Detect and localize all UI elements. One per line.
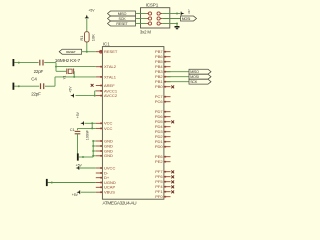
- wire SCK net: [167, 81, 189, 83]
- wire C1 top lead: [77, 128, 79, 130]
- svg-text:SCK: SCK: [119, 17, 127, 21]
- pin PF0 (right): [155, 194, 170, 199]
- svg-text:+5V: +5V: [76, 163, 83, 167]
- wire XTAL2 net: [56, 66, 96, 68]
- node junction (18.8,86.2): [18, 85, 20, 87]
- wire vertical x=44.5 cap2 to XTAL1: [54, 77, 56, 86]
- net flag MISO (ICSP side): [108, 11, 136, 16]
- wire MOSI net: [167, 76, 189, 78]
- wire MISO net: [167, 71, 189, 73]
- wire GND bus horizontal: [79, 156, 94, 158]
- svg-text:MOSI: MOSI: [190, 75, 199, 79]
- node junction (82.8,155.8): [82, 156, 84, 158]
- supply +5V (VBUS): [72, 190, 80, 197]
- svg-text:MISO: MISO: [118, 12, 127, 16]
- wire ICSP pin6 to GND: [162, 23, 177, 25]
- pin PC7 (right): [155, 94, 171, 99]
- value 16MHz KX-7: [55, 58, 81, 64]
- connector pin 6 (ICSP right): [157, 22, 162, 25]
- net flag SCK (IC side): [189, 79, 211, 84]
- supply +5V (ICSP): [177, 9, 191, 15]
- pin PD1 (right): [155, 139, 171, 144]
- net flag RESET (at IC): [59, 49, 81, 54]
- pin PD4 (right): [155, 124, 171, 129]
- net flag MOSI (IC side): [189, 74, 211, 79]
- svg-text:MISO: MISO: [190, 70, 199, 74]
- pin AVCC1 (left): [96, 88, 118, 93]
- no-connect X on AREF: [91, 84, 94, 87]
- wire AVCC1 jog: [95, 91, 96, 96]
- pin GND (left): [96, 138, 113, 143]
- svg-text:3x2 M: 3x2 M: [140, 29, 152, 34]
- node junction (177,23.5): [176, 23, 178, 25]
- node junction (56,66.7): [55, 66, 57, 68]
- node junction (92.2,128.4): [91, 127, 93, 129]
- IC U1 (IC1 ATMEGA32U4-AU) box: [102, 47, 163, 200]
- pin PF1 (right): [155, 189, 174, 194]
- pin PB5 (right): [155, 59, 170, 64]
- wire MISO to ICSP: [136, 13, 147, 15]
- wire RESET to ICSP: [136, 23, 147, 25]
- wire VBUS net: [81, 191, 96, 193]
- svg-text:R1: R1: [79, 35, 84, 41]
- pin PB2 (right): [155, 74, 170, 79]
- pin PF6 (right): [155, 174, 174, 179]
- svg-text:Y1: Y1: [63, 75, 67, 79]
- pin PB0 (right): [155, 84, 174, 89]
- net flag SCK (ICSP side): [108, 16, 136, 21]
- label ICSP1: [146, 3, 159, 8]
- value 22pF (top): [34, 69, 44, 74]
- node junction (87.3,51.7): [86, 51, 88, 53]
- svg-text:+5V: +5V: [88, 8, 95, 12]
- svg-text:C1: C1: [70, 127, 76, 132]
- pin PD2 (right): [155, 134, 171, 139]
- svg-text:VCC: VCC: [104, 126, 113, 131]
- svg-text:16MHz KX-7: 16MHz KX-7: [55, 58, 81, 64]
- connector ICSP1 box: [141, 8, 170, 28]
- svg-text:ATMEGA32U4-AU: ATMEGA32U4-AU: [103, 200, 137, 205]
- svg-text:PE2: PE2: [155, 159, 163, 164]
- pin XTAL1 (left): [96, 74, 117, 79]
- supply +5V (above R1): [85, 8, 95, 18]
- label C1: [70, 127, 76, 132]
- supply +5V (VCC): [76, 111, 84, 125]
- label IC1: [103, 41, 110, 46]
- svg-text:RESET: RESET: [104, 49, 118, 54]
- wire RESET net: [82, 51, 96, 53]
- wire VCC1 net: [85, 122, 96, 124]
- net flag MISO (IC side): [189, 69, 211, 74]
- value 3x2 M: [140, 29, 152, 34]
- svg-text:AREF: AREF: [104, 83, 115, 88]
- pin GND (left): [96, 143, 113, 148]
- pin GND (left): [96, 153, 113, 158]
- wire XTAL1 net: [55, 76, 96, 78]
- svg-text:10K: 10K: [91, 34, 96, 41]
- pin PE6 (right): [155, 154, 170, 159]
- pin PB4 (right): [155, 64, 170, 69]
- pin RESET (left): [96, 49, 118, 54]
- pin PB7 (right): [155, 49, 170, 54]
- ground (top cap): [12, 59, 14, 66]
- wire vertical x=56 cap1 to crystal: [55, 63, 57, 72]
- pin AVCC2 (left): [96, 93, 118, 98]
- node junction (51.8,182.2): [51, 182, 53, 184]
- svg-text:+5V: +5V: [72, 193, 79, 197]
- wire R1 top lead: [86, 19, 88, 32]
- pin PB6 (right): [155, 54, 170, 59]
- node junction (177,13.5): [176, 13, 178, 15]
- svg-text:MOSI: MOSI: [182, 17, 191, 21]
- pin PF4 (right): [155, 184, 174, 189]
- value label ATMEGA32U4-AU: [103, 200, 137, 205]
- ground (bottom cap): [12, 83, 14, 90]
- pin AREF (left): [96, 83, 115, 88]
- svg-text:SCK: SCK: [190, 80, 198, 84]
- pin PC6 (right): [155, 99, 171, 104]
- pin UCAP (left): [96, 185, 116, 190]
- connector pin 3 (ICSP left): [146, 17, 151, 20]
- wire ICSP pin4 to MOSI: [162, 18, 180, 20]
- pin GND (left): [96, 148, 113, 153]
- svg-text:RESET: RESET: [116, 22, 128, 26]
- pin PF7 (right): [155, 169, 174, 174]
- connector pin 1 (ICSP left): [146, 12, 151, 15]
- net flag RESET (ICSP side): [108, 21, 136, 26]
- pin PB1 (right): [155, 79, 170, 84]
- svg-text:C4: C4: [31, 77, 37, 82]
- wire top 22pF chain (y=62): [14, 62, 56, 64]
- pin VCC (left): [96, 126, 113, 131]
- node junction (18.8,62.6): [18, 62, 20, 64]
- svg-text:22pF: 22pF: [34, 69, 44, 74]
- svg-text:XTAL2: XTAL2: [104, 64, 117, 69]
- connector pin 2 (ICSP right): [157, 12, 162, 15]
- wire GND pin stubs tie: [93, 141, 96, 156]
- svg-text:ICSP1: ICSP1: [146, 3, 159, 8]
- wire down to ground: [176, 24, 178, 27]
- pin D- (left): [96, 170, 109, 175]
- svg-text:+5V: +5V: [187, 9, 191, 14]
- node junction (94.7,95.6): [94, 95, 96, 97]
- supply +5V (UVCC): [76, 163, 96, 170]
- connector pin 5 (ICSP left): [146, 22, 151, 25]
- svg-text:XTAL1: XTAL1: [104, 74, 117, 79]
- wire SCK to ICSP: [136, 18, 147, 20]
- pin VCC (left): [96, 121, 113, 126]
- ground (UGND): [46, 179, 48, 186]
- svg-text:AVCC2: AVCC2: [104, 93, 118, 98]
- svg-text:IC1: IC1: [103, 41, 110, 46]
- svg-text:PD0: PD0: [155, 144, 164, 149]
- node junction GND bus taps: [92, 140, 94, 157]
- svg-text:100nF: 100nF: [86, 129, 90, 140]
- wire VCC vertical tie: [91, 123, 93, 128]
- pin XTAL2 (left): [96, 64, 117, 69]
- pin PD0 (right): [155, 144, 171, 149]
- pin PD6 (right): [155, 114, 171, 119]
- wire AVCC2 net: [76, 95, 96, 97]
- pin UGND (left): [96, 180, 116, 185]
- svg-text:PF0: PF0: [155, 194, 163, 199]
- resistor R1: [85, 32, 90, 42]
- pin PB3 (right): [155, 69, 170, 74]
- supply +5V (AVCC): [68, 86, 73, 98]
- svg-text:GND: GND: [104, 153, 113, 158]
- wire ICSP pin2 to +5V: [162, 13, 177, 15]
- pin PE2 (right): [155, 159, 170, 164]
- wire R1 bottom lead: [86, 42, 88, 52]
- svg-text:22pF: 22pF: [31, 91, 41, 96]
- wire GND bus vertical: [92, 141, 94, 157]
- value 22pF (bottom): [31, 91, 41, 96]
- value 100nF (rotated): [86, 129, 90, 140]
- capacitor C3 22pF (top): [40, 60, 43, 66]
- connector pin 4 (ICSP right): [157, 17, 162, 20]
- wire bottom 22pF chain (y=85): [14, 85, 55, 87]
- value 10K (rotated): [91, 34, 96, 41]
- svg-text:+5V: +5V: [68, 86, 72, 93]
- node junction (92.2,123.3): [91, 122, 93, 124]
- pin PF5 (right): [155, 179, 174, 184]
- pin VBUS (left): [96, 190, 115, 195]
- ground (ICSP): [175, 27, 180, 29]
- label R1 (rotated): [79, 35, 84, 41]
- ground (VCC cluster): [77, 153, 79, 160]
- wire UGND net: [48, 182, 96, 184]
- net flag MOSI (ICSP side): [181, 16, 197, 21]
- label C4: [31, 77, 37, 82]
- svg-text:PC6: PC6: [155, 99, 164, 104]
- svg-text:RESET: RESET: [66, 50, 76, 54]
- label Y1 (rotated): [63, 75, 67, 79]
- svg-text:+5V: +5V: [76, 111, 80, 118]
- wire VCC2 net: [78, 127, 96, 129]
- wire crystal right to XTAL1: [73, 71, 75, 77]
- capacitor C1 100nF: [75, 131, 81, 133]
- pin PD7 (right): [155, 109, 171, 114]
- node junction (74.2,76.9): [73, 76, 75, 78]
- svg-text:VBUS: VBUS: [104, 190, 115, 195]
- crystal Q1 16MHz: [56, 69, 74, 75]
- capacitor C4 22pF (bottom): [41, 83, 44, 89]
- pin D+ (left): [96, 175, 110, 180]
- pin PD3 (right): [155, 129, 171, 134]
- pin UVCC (left): [96, 165, 116, 170]
- pin PD5 (right): [155, 119, 174, 124]
- svg-text:PB0: PB0: [155, 84, 163, 89]
- wire C1 bottom lead: [77, 134, 79, 157]
